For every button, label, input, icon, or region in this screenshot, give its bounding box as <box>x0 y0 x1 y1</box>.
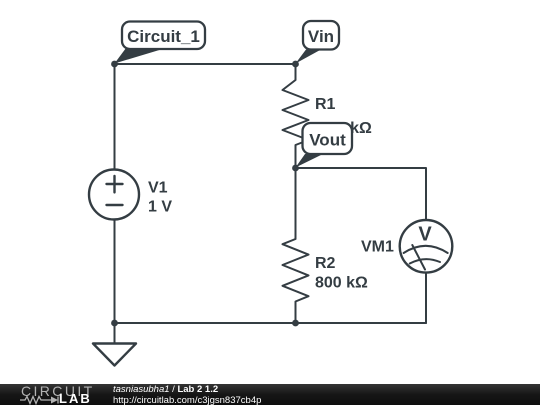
node A junction dot <box>111 61 118 68</box>
node Vin junction dot <box>292 61 299 68</box>
svg-text:1 V: 1 V <box>148 199 172 216</box>
voltmeter VM1 <box>400 220 453 273</box>
CircuitLab logo wordmark <box>21 385 95 397</box>
node ground-mid junction dot <box>292 320 299 327</box>
wire left rail bottom (V1 minus to ground rail) <box>114 220 116 324</box>
node Vout junction dot <box>292 165 299 172</box>
svg-text:R2: R2 <box>315 255 336 272</box>
footer url line <box>113 395 261 406</box>
label V1 value 1 V <box>148 180 172 216</box>
wire Vout node to voltmeter top <box>296 168 427 220</box>
svg-text:Circuit_1: Circuit_1 <box>127 27 200 46</box>
voltage source V1 <box>89 170 139 220</box>
wire voltmeter bottom to rail <box>425 273 427 323</box>
wire top rail Circuit_1/Vin <box>115 63 296 65</box>
logo LAB text <box>59 393 92 405</box>
footer title line <box>113 384 218 395</box>
resistor R2 <box>283 168 309 323</box>
footer bar <box>0 384 540 405</box>
svg-text:Vin: Vin <box>308 27 334 46</box>
net label Vin <box>296 21 340 64</box>
logo resistor-diode symbol <box>20 395 64 405</box>
wire bottom rail <box>115 322 427 324</box>
ground <box>93 323 136 366</box>
label R1 value kΩ <box>315 96 372 137</box>
label R2 value 800 kΩ <box>315 255 368 292</box>
wire left rail top (node A to V1 plus terminal) <box>114 64 116 170</box>
svg-text:V1: V1 <box>148 180 168 197</box>
svg-text:R1: R1 <box>315 96 336 113</box>
svg-text:V: V <box>418 224 432 246</box>
svg-text:800 kΩ: 800 kΩ <box>315 275 368 292</box>
resistor R1 <box>283 64 309 168</box>
svg-text:VM1: VM1 <box>361 239 394 256</box>
net label Vout <box>296 123 353 168</box>
node ground-left junction dot <box>111 320 118 327</box>
net label Circuit_1 <box>115 22 206 64</box>
svg-text:Vout: Vout <box>309 131 346 150</box>
